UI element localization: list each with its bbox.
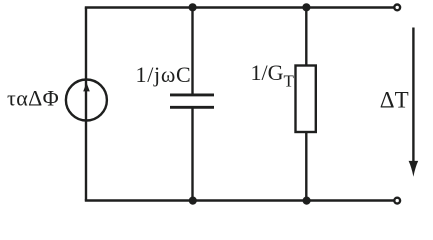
junction dot top capacitor (189, 3, 197, 11)
arrow dT line (412, 28, 414, 165)
svg-text:1/GT: 1/GT (251, 60, 295, 90)
wire resistor branch lower (305, 132, 307, 201)
capacitor C top plate (170, 93, 214, 96)
wire capacitor branch lower (191, 107, 193, 200)
junction dot bottom capacitor (189, 197, 197, 205)
terminal bottom right open circle (394, 198, 400, 204)
capacitor C bottom plate (170, 106, 214, 109)
svg-text:1/jωC: 1/jωC (136, 62, 192, 87)
current source U1 arrowhead (83, 83, 90, 92)
current source U1 circle (66, 80, 107, 121)
arrow dT head (409, 161, 419, 177)
terminal top right open circle (394, 5, 400, 11)
wire capacitor branch upper (191, 8, 193, 95)
svg-text:ταΔΦ: ταΔΦ (7, 86, 59, 111)
wire resistor branch upper (305, 8, 307, 67)
resistor R body (296, 66, 316, 133)
wire bottom rail (85, 199, 394, 201)
wire top rail (85, 6, 394, 8)
junction dot top resistor (302, 3, 310, 11)
junction dot bottom resistor (303, 197, 311, 205)
wire left branch (85, 8, 87, 201)
svg-text:ΔT: ΔT (380, 87, 409, 112)
